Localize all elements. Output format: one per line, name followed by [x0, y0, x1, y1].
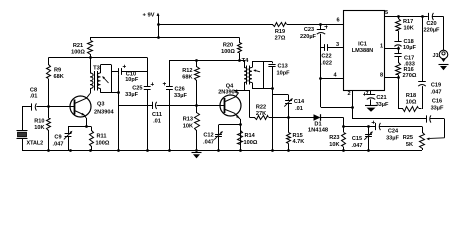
- wire Q3 emitter column: [85, 121, 88, 128]
- svg-text:C24: C24: [388, 129, 399, 135]
- capacitor C14: [284, 98, 305, 112]
- wire C11 row: [119, 105, 152, 107]
- capacitor C17: [394, 54, 414, 68]
- crystal XTAL2: [17, 131, 44, 151]
- svg-text:R22: R22: [256, 105, 266, 111]
- svg-text:R18: R18: [406, 93, 416, 99]
- svg-text:.047: .047: [431, 90, 442, 96]
- svg-text:4.7K: 4.7K: [293, 139, 305, 145]
- svg-text:R21: R21: [73, 43, 83, 49]
- svg-text:C25: C25: [132, 86, 142, 92]
- wire Q4 base: [197, 105, 224, 107]
- svg-text:2: 2: [347, 91, 350, 97]
- resistor R14: [238, 131, 258, 151]
- svg-text:Q3: Q3: [97, 102, 104, 108]
- wire Q4 collector to T4: [234, 83, 245, 93]
- svg-text:C11: C11: [152, 112, 162, 118]
- capacitor C23: [300, 23, 328, 40]
- svg-text:100Ω: 100Ω: [71, 50, 85, 56]
- resistor R18: [398, 93, 422, 112]
- svg-text:C16: C16: [432, 99, 442, 105]
- wire emitter to C12: [219, 124, 241, 126]
- resistor R21: [71, 38, 92, 56]
- svg-text:C13: C13: [278, 64, 288, 70]
- wire T4 secondary top to C13: [252, 62, 273, 68]
- svg-text:220µF: 220µF: [300, 34, 317, 40]
- resistor R23: [329, 127, 345, 152]
- svg-text:6: 6: [336, 18, 339, 24]
- capacitor C10: [111, 65, 147, 84]
- wire T4 collector tap to R22: [244, 90, 250, 118]
- resistor R15: [287, 118, 305, 152]
- wire T3 secondary bottom: [101, 89, 120, 94]
- wire volume bus: [344, 125, 376, 128]
- svg-text:10µF: 10µF: [403, 45, 416, 51]
- svg-text:R13: R13: [183, 117, 193, 123]
- ground J1: [439, 65, 449, 71]
- svg-text:R10: R10: [34, 119, 44, 125]
- transformer T4: [240, 58, 261, 85]
- svg-text:68K: 68K: [54, 74, 64, 80]
- svg-text:10K: 10K: [329, 142, 339, 148]
- capacitor C11: [152, 102, 162, 125]
- resistor R22: [250, 105, 289, 120]
- svg-text:68K: 68K: [182, 75, 192, 81]
- svg-text:33µF: 33µF: [376, 102, 389, 108]
- wire T3 column to ground rail: [117, 75, 120, 152]
- wire R21 to T3: [89, 54, 92, 73]
- svg-text:8: 8: [380, 73, 383, 79]
- svg-text:.01: .01: [153, 119, 161, 125]
- potentiometer R25: [403, 127, 445, 151]
- svg-text:C22: C22: [321, 54, 331, 60]
- svg-text:270Ω: 270Ω: [403, 73, 417, 79]
- svg-text:C19: C19: [431, 83, 441, 89]
- svg-text:C15: C15: [352, 136, 362, 142]
- wire C23 column: [319, 34, 322, 107]
- wire C20 to J1: [432, 17, 443, 51]
- capacitor C24: [372, 121, 400, 142]
- svg-text:33µF: 33µF: [431, 106, 444, 112]
- transistor Q3: [70, 94, 114, 122]
- wire C16 to R25 wiper: [444, 119, 446, 138]
- capacitor C21 pin7: [363, 90, 389, 108]
- svg-text:10pF: 10pF: [277, 71, 291, 77]
- svg-text:5K: 5K: [406, 142, 413, 148]
- svg-text:5: 5: [385, 10, 388, 16]
- svg-text:1N4148: 1N4148: [308, 127, 329, 133]
- resistor R17: [396, 17, 414, 32]
- wire T4 tank bracket: [263, 62, 265, 89]
- wire rail L2: [169, 59, 244, 62]
- svg-text:C26: C26: [175, 87, 185, 93]
- svg-text:.022: .022: [321, 61, 332, 67]
- svg-text:100Ω: 100Ω: [244, 140, 258, 146]
- wire emitter to C9: [68, 126, 92, 128]
- transformer T3: [90, 66, 109, 91]
- wire rail R21 to R20: [90, 36, 240, 39]
- transistor Q4: [218, 84, 241, 120]
- svg-text:.047: .047: [53, 142, 64, 148]
- capacitor C26: [163, 60, 188, 152]
- wire R13 to ground rail: [195, 130, 198, 152]
- resistor R20: [221, 38, 241, 61]
- svg-text:27Ω: 27Ω: [275, 36, 286, 42]
- svg-text:R11: R11: [97, 134, 107, 140]
- wire R12 to base node: [196, 80, 198, 113]
- ground C21: [365, 99, 377, 111]
- capacitor C18: [394, 39, 416, 51]
- svg-text:100Ω: 100Ω: [221, 49, 235, 55]
- svg-text:100Ω: 100Ω: [96, 141, 110, 147]
- svg-text:.01: .01: [30, 94, 38, 100]
- svg-text:IC1: IC1: [358, 42, 367, 48]
- svg-text:.047: .047: [352, 143, 363, 149]
- resistor R10: [34, 119, 50, 132]
- jack J1: [432, 50, 447, 62]
- svg-text:10K: 10K: [404, 26, 414, 32]
- wire C8 to Q3 base: [49, 106, 75, 108]
- svg-text:10Ω: 10Ω: [406, 99, 417, 105]
- svg-text:C23: C23: [304, 27, 314, 33]
- svg-text:R25: R25: [403, 135, 413, 141]
- wire C24 to R25: [379, 126, 422, 128]
- capacitor C12 trimmer: [203, 125, 223, 152]
- svg-text:10pF: 10pF: [125, 77, 139, 83]
- capacitor C25: [125, 72, 154, 152]
- resistor R16: [396, 56, 417, 79]
- svg-text:C21: C21: [376, 95, 386, 101]
- wire Q4 emitter column: [239, 119, 242, 152]
- capacitor C19: [418, 17, 441, 110]
- svg-text:+ 9V: + 9V: [142, 13, 154, 19]
- svg-text:.047: .047: [203, 140, 214, 146]
- wire R16 to pin8: [380, 73, 400, 79]
- capacitor C15 trimmer: [352, 127, 373, 152]
- wire R17 to C18: [398, 31, 400, 42]
- ground main rail: [192, 153, 202, 159]
- wire pin2: [321, 90, 354, 119]
- wire C10 column down: [147, 58, 149, 72]
- resistor R19: [273, 23, 287, 42]
- pin 5 output wire: [384, 10, 428, 18]
- wire R9 to R10 node: [47, 79, 50, 118]
- capacitor C20: [424, 13, 441, 34]
- wire Q3 collector to T3: [90, 89, 92, 94]
- svg-text:R14: R14: [245, 133, 256, 139]
- ground rail bottom: [22, 149, 422, 152]
- wire C18 to C17: [398, 46, 400, 53]
- svg-text:LM388N: LM388N: [352, 48, 373, 54]
- svg-text:33µF: 33µF: [125, 92, 138, 98]
- svg-text:R12: R12: [182, 68, 192, 74]
- capacitor C22 pin3: [321, 42, 343, 67]
- svg-text:1: 1: [380, 44, 383, 50]
- wire pin1: [380, 44, 400, 50]
- svg-text:220µF: 220µF: [424, 28, 441, 34]
- wire C13 to tank node: [271, 67, 274, 152]
- resistor R9: [47, 58, 64, 81]
- svg-text:R20: R20: [223, 43, 233, 49]
- op-amp IC1 LM388N: [344, 11, 385, 91]
- wire R9 top rail: [49, 57, 148, 59]
- svg-text:C20: C20: [426, 21, 436, 27]
- wire C14 to detector node: [287, 104, 290, 119]
- capacitor C16: [353, 99, 445, 123]
- svg-text:2N3904: 2N3904: [94, 110, 114, 116]
- svg-text:33µF: 33µF: [174, 93, 187, 99]
- svg-text:3: 3: [336, 42, 339, 48]
- resistor R11: [90, 127, 110, 150]
- svg-text:C12: C12: [203, 133, 213, 139]
- svg-text:10K: 10K: [34, 125, 44, 131]
- svg-text:R23: R23: [329, 135, 339, 141]
- svg-text:C14: C14: [294, 99, 305, 105]
- svg-text:XTAL2: XTAL2: [27, 140, 44, 146]
- wire rail +9V to R19: [157, 23, 273, 26]
- svg-text:.01: .01: [295, 106, 303, 112]
- wire R10 to ground rail: [47, 130, 50, 152]
- svg-text:27K: 27K: [256, 111, 266, 117]
- wire T4 secondary bottom: [252, 83, 272, 89]
- diode D1 1N4148: [289, 114, 344, 133]
- node +9V supply: [142, 13, 159, 39]
- capacitor C8: [22, 88, 49, 111]
- wire R19 to pin6: [287, 24, 343, 26]
- wire pin4: [321, 73, 343, 79]
- wire crystal column: [22, 107, 24, 131]
- pin 6 label: [336, 18, 339, 24]
- svg-text:T3: T3: [93, 66, 101, 72]
- resistor R12: [182, 60, 199, 81]
- wire D1 to R23 node: [342, 118, 345, 128]
- capacitor C9 trimmer: [53, 127, 73, 150]
- svg-text:R19: R19: [275, 29, 285, 35]
- resistor R13: [183, 113, 200, 131]
- svg-text:J1: J1: [432, 53, 438, 59]
- svg-text:R9: R9: [54, 68, 61, 74]
- wire pin8 to R18: [398, 78, 400, 110]
- svg-text:10K: 10K: [183, 124, 193, 130]
- capacitor C13: [268, 64, 290, 77]
- wire C11 to Q4 base node: [157, 104, 198, 107]
- svg-text:33µF: 33µF: [386, 136, 399, 142]
- svg-text:C9: C9: [54, 135, 61, 141]
- wire tank to C14: [272, 95, 289, 102]
- svg-text:R17: R17: [403, 19, 413, 25]
- wire T3 tank bracket: [101, 65, 112, 93]
- svg-text:R16: R16: [404, 67, 414, 73]
